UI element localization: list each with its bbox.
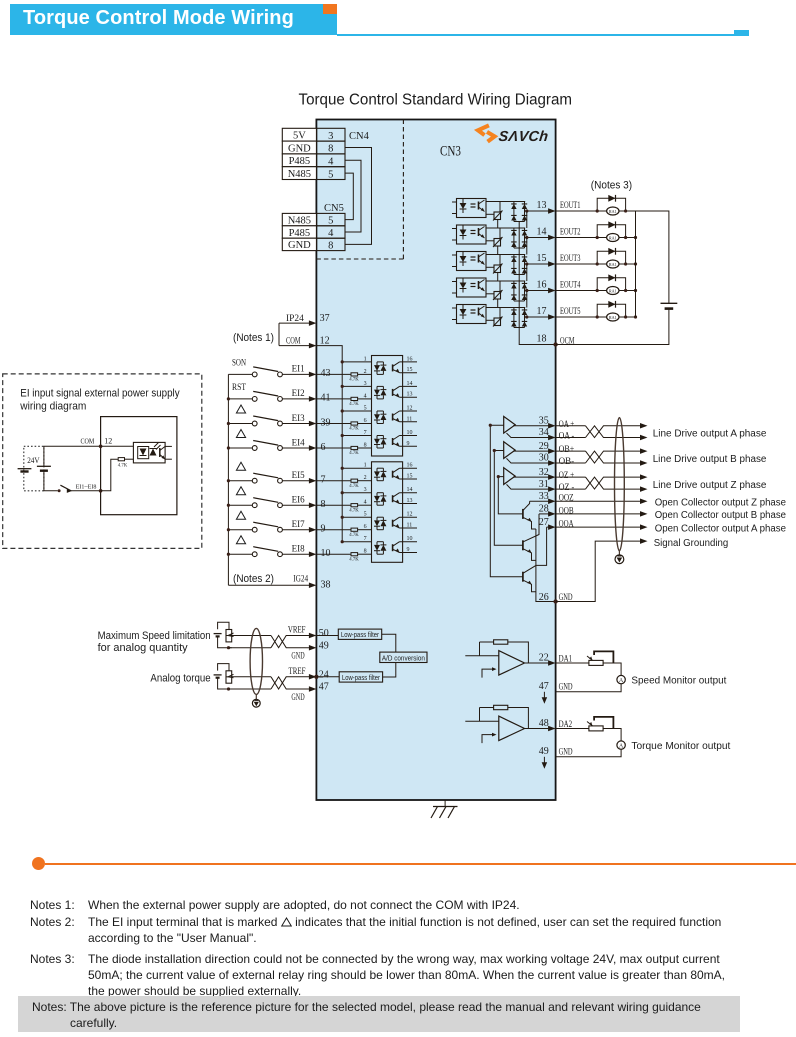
svg-text:EOUT5: EOUT5 [560, 306, 581, 316]
svg-text:GND: GND [288, 143, 311, 154]
wire chain module1 to module2 [526, 211, 528, 228]
svg-text:8: 8 [328, 240, 333, 251]
svg-text:Line Drive output A phase: Line Drive output A phase [653, 428, 767, 439]
svg-text:GND: GND [291, 652, 304, 662]
wire EI6 to pin 8 [283, 504, 310, 506]
wire bridge rail to OCM [519, 222, 555, 345]
svg-text:5V: 5V [293, 131, 306, 142]
svg-text:7: 7 [364, 430, 367, 436]
junction rail-EI7 [341, 516, 344, 519]
svg-text:47: 47 [319, 682, 329, 693]
twisted pair OB+/OB- [556, 450, 586, 452]
wire pin 10 to resistor [316, 553, 351, 555]
switch EI2 input [228, 398, 252, 400]
junction relay-left [596, 289, 599, 292]
wire COM rail to opto pin [342, 361, 371, 363]
svg-text:28: 28 [539, 504, 549, 515]
wire A/D to LPF2 [383, 663, 396, 678]
wires opto EI6 outputs [400, 492, 418, 494]
wire OOA external [556, 526, 641, 528]
svg-text:Analog torque: Analog torque [150, 672, 210, 684]
junction relay-left [596, 209, 599, 212]
svg-text:EI7: EI7 [292, 520, 305, 530]
wire pot to meter [603, 729, 621, 742]
wire module3 top rail [486, 254, 525, 256]
wire pin50 to LPF1 [316, 635, 338, 637]
junction relay-left [596, 262, 599, 265]
svg-text:GND: GND [559, 592, 573, 602]
wire OOB external [556, 513, 641, 515]
svg-text:3: 3 [364, 381, 367, 387]
svg-text:OB+: OB+ [559, 444, 575, 454]
resistor 4.7K (EI3) [351, 422, 358, 425]
svg-text:CN4: CN4 [349, 131, 370, 142]
wire Z-drive to Q3 base [498, 477, 522, 514]
resistor 4.7K (EI6) [351, 504, 358, 507]
svg-text:50: 50 [319, 628, 329, 639]
junction relay-left [596, 236, 599, 239]
svg-text:16: 16 [407, 463, 413, 469]
svg-text:OB-: OB- [559, 456, 575, 466]
svg-text:RA1: RA1 [609, 262, 617, 267]
svg-text:10: 10 [407, 536, 413, 542]
wire EI through resistor (external) [101, 459, 119, 491]
wire mosfet chain module2 [497, 246, 499, 255]
svg-text:3: 3 [328, 131, 333, 142]
wire pin 28 (OOB) [539, 513, 549, 515]
svg-text:14: 14 [537, 227, 547, 238]
svg-text:Maximum Speed limitation: Maximum Speed limitation [98, 630, 211, 642]
wire module2 top rail [486, 227, 525, 229]
internal ground arrow 47 [543, 692, 545, 701]
svg-text:Torque Control Standard Wiring: Torque Control Standard Wiring Diagram [299, 91, 573, 108]
resistor 4.7K (EI8) [351, 553, 358, 556]
wire COM rail to opto pin [342, 492, 371, 494]
svg-text:4.7K: 4.7K [349, 378, 359, 383]
svg-text:8: 8 [364, 443, 367, 449]
feedback resistor DA1 [494, 640, 508, 644]
wires opto EI8 outputs [400, 541, 418, 543]
external pot DA2 [556, 728, 589, 730]
switch EI6 input [228, 504, 252, 506]
connector CN5 table [282, 213, 316, 225]
junction EOUT1 [525, 209, 528, 212]
opto-coupler U3 block EI5-EI8 [372, 462, 403, 563]
svg-text:7: 7 [364, 536, 367, 542]
wires opto EI3 outputs [400, 410, 418, 412]
wire pin 39 to resistor [316, 423, 351, 425]
wire emitters to GND pin 26 [536, 529, 556, 602]
svg-text:EOUT4: EOUT4 [560, 280, 581, 290]
wire CN4 pin4 to CN5 pin4 [345, 160, 361, 232]
external supply dashed box [3, 374, 202, 549]
svg-text:34: 34 [539, 427, 549, 438]
svg-text:EI5: EI5 [292, 471, 305, 481]
svg-text:DA1: DA1 [559, 653, 573, 663]
svg-text:RA1: RA1 [609, 236, 617, 241]
svg-text:11: 11 [407, 416, 413, 422]
junction COM external [99, 445, 103, 449]
wire meter to GND pin 49 [556, 749, 622, 757]
svg-text:IG24: IG24 [293, 575, 308, 585]
svg-text:TREF: TREF [289, 667, 306, 677]
svg-text:9: 9 [407, 547, 410, 553]
wire module5 top rail [486, 307, 525, 309]
mosfet Q4 [494, 292, 501, 300]
svg-text:EI input signal external power: EI input signal external power supply [20, 388, 180, 400]
svg-text:4.7K: 4.7K [118, 464, 128, 469]
junction bus-EI8 [227, 553, 230, 556]
svg-text:41: 41 [321, 393, 331, 404]
svg-text:29: 29 [539, 441, 549, 452]
chassis ground [444, 800, 446, 807]
opto LEDs EI4 [376, 436, 378, 439]
junction bus-EI7 [227, 528, 230, 531]
svg-text:2: 2 [364, 475, 367, 481]
wires opto EI7 outputs [400, 516, 418, 518]
svg-text:3: 3 [364, 487, 367, 493]
wire DA1 to pin 22 [525, 662, 549, 664]
wire GND to signal grounding [556, 541, 641, 601]
svg-text:22: 22 [539, 653, 549, 664]
resistor 4.7K (EI1) [351, 373, 358, 376]
junction bus-EI5 [227, 479, 230, 482]
svg-text:RST: RST [232, 383, 246, 393]
svg-text:SON: SON [232, 359, 246, 369]
svg-text:4.7K: 4.7K [349, 427, 359, 432]
svg-text:33: 33 [539, 491, 549, 502]
relay RA2 flyback diode [597, 225, 625, 238]
wire EOUT1 to pin 13 [525, 210, 549, 212]
wire pin 35 [513, 425, 549, 427]
svg-text:Open Collector output Z phase: Open Collector output Z phase [655, 498, 787, 509]
header orange square [323, 4, 337, 14]
wire B-drive to Q4 base [494, 451, 522, 546]
opto transistor EI2 [392, 389, 394, 396]
meter Speed Monitor output [617, 675, 625, 683]
svg-text:12: 12 [320, 335, 330, 346]
switch EI4 input [228, 447, 252, 449]
junction rail-EI1 [341, 360, 344, 363]
wire battery to OCM [556, 309, 669, 345]
relay coil RA4 [607, 287, 619, 295]
svg-text:6: 6 [364, 524, 367, 530]
switch EI1~EI8 external [58, 489, 61, 492]
opto LEDs EI6 [376, 493, 378, 496]
Notes 3 [0, 951, 796, 1000]
wire EOUT5 to pin 17 [525, 316, 549, 318]
svg-text:15: 15 [407, 474, 413, 480]
svg-text:14: 14 [407, 487, 413, 493]
svg-text:12: 12 [407, 406, 413, 412]
wire EI3 to pin 39 [283, 423, 310, 425]
relay RA3 flyback diode [597, 251, 625, 264]
svg-text:16: 16 [407, 356, 413, 362]
svg-text:EI1: EI1 [292, 365, 305, 375]
svg-text:5: 5 [328, 216, 333, 227]
wire pin 9 to resistor [316, 529, 351, 531]
resistor 4.7K (EI7) [351, 528, 358, 531]
svg-text:10: 10 [407, 430, 413, 436]
svg-text:RA1: RA1 [609, 209, 617, 214]
wire EI8 to pin 10 [283, 553, 310, 555]
wire A-drive to Q5 base [490, 425, 522, 577]
junction pin 26 [553, 599, 557, 603]
wire DA2 to pin 48 [525, 728, 549, 730]
wire chain module4 to module5 [526, 291, 528, 308]
CN3 main connector box [316, 120, 555, 801]
Notes 2 [0, 914, 796, 947]
junction rail-EI2 [341, 385, 344, 388]
wire IP24 jumper bracket [278, 323, 280, 346]
svg-text:EOUT2: EOUT2 [560, 227, 581, 237]
wire COM rail to opto pin [342, 435, 371, 437]
opto-coupler U2 block EI1-EI4 [372, 356, 403, 457]
junction relay bus [634, 289, 637, 292]
opto-driver module EOUT2 [457, 225, 487, 244]
svg-text:9: 9 [407, 441, 410, 447]
external box inner connector [101, 417, 177, 515]
wire pin 8 to resistor [316, 504, 351, 506]
svg-text:4.7K: 4.7K [349, 533, 359, 538]
arrow signal grounding [640, 538, 648, 544]
junction relay bus [634, 236, 637, 239]
svg-text:5: 5 [364, 512, 367, 518]
diode bridge module3 [513, 255, 515, 275]
junction rail-EI5 [341, 467, 344, 470]
label triangle (undefined input) [236, 487, 245, 495]
twisted pair OZ +/OZ - [556, 476, 586, 478]
opto-driver module EOUT5 [457, 305, 487, 324]
wire OOZ external [556, 500, 641, 502]
svg-text:EI8: EI8 [292, 545, 305, 555]
svg-text:38: 38 [321, 579, 331, 590]
svg-text:Torque Monitor output: Torque Monitor output [631, 741, 730, 752]
orange separator rule [45, 863, 796, 865]
svg-text:49: 49 [539, 746, 549, 757]
junction rail-EI4 [341, 434, 344, 437]
svg-text:for analog quantity: for analog quantity [98, 642, 188, 654]
transistor Q4 OOB [522, 540, 524, 550]
twisted pair TREF/GND [232, 676, 271, 678]
svg-text:(Notes 2): (Notes 2) [233, 573, 274, 585]
battery B1 external supply [661, 302, 678, 304]
external pot DA1 [556, 662, 589, 664]
wire IG24 to pin 38 [228, 584, 309, 586]
junction bus-EI3 [227, 422, 230, 425]
svg-text:EI4: EI4 [292, 438, 305, 448]
opto LEDs EI5 [376, 468, 378, 471]
svg-text:N485: N485 [288, 169, 311, 180]
svg-text:(Notes 1): (Notes 1) [233, 332, 274, 344]
junction relay bus [634, 262, 637, 265]
svg-text:43: 43 [321, 368, 331, 379]
opto transistor EI4 [392, 438, 394, 445]
junction rail-EI6 [341, 491, 344, 494]
switch EI3 input [228, 423, 252, 425]
relay coil RA2 [607, 234, 619, 242]
switch EI1 input [228, 373, 252, 375]
svg-text:OA +: OA + [559, 419, 575, 429]
arrow into pin 37 [309, 320, 317, 326]
svg-text:GND: GND [291, 693, 304, 703]
wire EI4 to pin 6 [283, 447, 310, 449]
junction RP1 [227, 646, 230, 649]
relay RA4 flyback diode [597, 278, 625, 291]
svg-text:P485: P485 [289, 156, 311, 167]
junction bus-EI6 [227, 504, 230, 507]
wire EI1 to pin 43 [283, 373, 310, 375]
svg-text:31: 31 [539, 479, 549, 490]
wire EOUT1 relay [556, 210, 636, 212]
header right tab [734, 30, 749, 37]
wire COM rail to opto pin [342, 410, 371, 412]
svg-text:Line Drive output B phase: Line Drive output B phase [653, 454, 767, 465]
opto transistor EI7 [392, 520, 394, 527]
svg-text:24V: 24V [27, 455, 40, 465]
op-amp DA2 [499, 716, 525, 741]
resistor 4.7K (external) [118, 458, 124, 461]
wire relay bus to battery [636, 211, 669, 303]
line driver U5 [504, 442, 516, 459]
line driver U4 [504, 416, 516, 433]
junction relay-right [624, 289, 627, 292]
svg-text:39: 39 [321, 417, 331, 428]
svg-text:COM: COM [81, 437, 95, 446]
opto LEDs EI1 [376, 362, 378, 365]
svg-text:RA1: RA1 [609, 315, 617, 320]
opto transistor EI8 [392, 544, 394, 551]
junction pin 24 [314, 675, 318, 679]
opto-coupler (external) [133, 442, 165, 463]
svg-text:OZ -: OZ - [559, 482, 575, 492]
wire IP24 to pin 37 [279, 322, 309, 324]
header title [23, 7, 353, 30]
svg-text:6: 6 [364, 418, 367, 424]
svg-text:(Notes 3): (Notes 3) [591, 180, 632, 192]
wires opto EI1 outputs [400, 361, 418, 363]
wire EOUT4 relay [556, 290, 636, 292]
label triangle (undefined input) [236, 536, 245, 544]
SANCH logo mark [478, 125, 489, 135]
svg-text:OA -: OA - [559, 431, 575, 441]
wire CN4 pin8 to CN5 pin8 [345, 148, 372, 245]
label triangle (undefined input) [236, 430, 245, 438]
opto transistor EI5 [392, 471, 394, 478]
svg-text:32: 32 [539, 467, 549, 478]
junction pin18 [553, 342, 557, 346]
potentiometer RP2 [218, 664, 229, 671]
svg-text:9: 9 [321, 524, 326, 535]
wire CN4 pin5 to CN5 pin5 [345, 173, 353, 220]
svg-text:5: 5 [364, 406, 367, 412]
mosfet Q2 [494, 239, 501, 247]
opto-driver module EOUT3 [457, 252, 487, 271]
wire pin 31 [507, 484, 549, 489]
wire pin 30 [507, 458, 549, 463]
svg-text:4.7K: 4.7K [349, 484, 359, 489]
wire COM rail to opto pin [342, 541, 371, 543]
diode bridge module2 [513, 228, 515, 248]
svg-text:4.7K: 4.7K [349, 402, 359, 407]
wire mosfet chain module1 [497, 220, 499, 229]
junction bus-EI4 [227, 446, 230, 449]
twisted pair OA +/OA - [556, 425, 586, 427]
wire COM rail to opto pin [342, 516, 371, 518]
svg-text:EI1~EI8: EI1~EI8 [76, 485, 97, 491]
svg-text:4: 4 [328, 228, 334, 239]
wire COM rail to opto pin [342, 385, 371, 387]
opto transistor EI6 [392, 495, 394, 502]
switch EI7 input [228, 529, 252, 531]
svg-text:wiring diagram: wiring diagram [19, 401, 86, 413]
junction rail-EI8 [341, 540, 344, 543]
svg-text:EI3: EI3 [292, 414, 305, 424]
junction EOUT2 [525, 236, 528, 239]
resistor 4.7K (EI5) [351, 479, 358, 482]
twisted pair VREF/GND [232, 635, 271, 637]
wire COM into opto (external) [101, 445, 134, 447]
relay RA5 flyback diode [597, 304, 625, 317]
wire pin24 to LPF2 [316, 676, 339, 678]
feedback resistor DA2 [494, 705, 508, 709]
junction EI external [99, 489, 103, 493]
wire EOUT5 relay [556, 316, 636, 318]
wire EI5 to pin 7 [283, 480, 310, 482]
wire chain module2 to module3 [526, 238, 528, 255]
opto transistor EI1 [392, 364, 394, 371]
svg-text:5: 5 [328, 169, 333, 180]
mosfet Q1 [494, 212, 501, 220]
svg-text:4.7K: 4.7K [349, 508, 359, 513]
shield ground symbol [618, 551, 620, 555]
wires opto outputs (external) [165, 445, 172, 447]
wires opto EI5 outputs [400, 467, 418, 469]
wire pin 32 [513, 476, 549, 478]
potentiometer RP1 [218, 622, 229, 629]
svg-text:7: 7 [321, 475, 326, 486]
label triangle (undefined input) [236, 405, 245, 413]
header band [10, 4, 337, 35]
wire meter to GND pin 47 [556, 683, 622, 691]
wire COM to pin 12 [279, 345, 309, 347]
junction relay-right [624, 315, 627, 318]
relay coil RA5 [607, 313, 619, 321]
internal ground arrow 49 [543, 757, 545, 766]
Notes 1 [0, 897, 796, 913]
svg-text:Signal Grounding: Signal Grounding [654, 538, 729, 549]
junction relay-left [596, 315, 599, 318]
relay coil RA1 [607, 207, 619, 215]
wire pin 6 to resistor [316, 447, 351, 449]
opto LEDs EI2 [376, 386, 378, 389]
svg-text:15: 15 [537, 253, 547, 264]
svg-text:26: 26 [539, 592, 549, 603]
wire 24V- to switch [44, 471, 58, 491]
svg-text:P485: P485 [289, 228, 311, 239]
svg-text:RA1: RA1 [609, 289, 617, 294]
opto LEDs EI3 [376, 411, 378, 414]
svg-text:13: 13 [407, 498, 413, 504]
svg-text:OZ +: OZ + [559, 470, 575, 480]
orange separator dot [32, 857, 45, 870]
svg-text:1: 1 [364, 463, 367, 469]
wire pin 41 to resistor [316, 398, 351, 400]
wire pin 33 (OOZ) [530, 500, 549, 502]
label triangle (undefined input) [236, 511, 245, 519]
svg-text:16: 16 [537, 280, 547, 291]
low-pass filter block 1 [338, 629, 381, 639]
